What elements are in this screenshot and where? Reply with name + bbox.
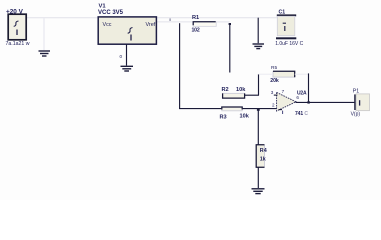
svg-text:R2: R2 (222, 87, 229, 93)
resistor R4 body (256, 145, 264, 168)
ground G3 (253, 44, 265, 49)
ground G1 (39, 51, 51, 56)
probe P1 terminal bar (354, 94, 356, 110)
svg-text:R5: R5 (271, 65, 277, 71)
source BT1 body (8, 14, 26, 40)
wire vertical R1 right net (229, 23, 231, 72)
svg-text:20k: 20k (270, 78, 279, 84)
svg-text:741 C: 741 C (295, 111, 308, 117)
svg-text:V1: V1 (99, 4, 107, 10)
junction tick on top net (169, 18, 170, 21)
ground G2 (121, 66, 134, 71)
svg-text:0: 0 (120, 54, 123, 59)
resistor R3 body (222, 107, 242, 111)
svg-text:R3: R3 (220, 114, 227, 120)
svg-text:7a.1a21 w: 7a.1a21 w (6, 41, 30, 47)
ground G4 (252, 189, 265, 194)
svg-text:C1: C1 (279, 9, 286, 15)
svg-text:V(p): V(p) (351, 111, 361, 117)
svg-text:P1: P1 (353, 88, 359, 94)
wire op-amp output (296, 101, 355, 103)
wire feedback stub left (259, 73, 274, 75)
probe P1 body (356, 94, 369, 111)
svg-text:VCC 3V5: VCC 3V5 (98, 10, 124, 16)
wire junction to R4 (257, 109, 259, 145)
wire faint V1 box right pin to R1 (157, 21, 194, 23)
block V1 inner source glyph (128, 28, 133, 34)
wire V1 bottom pin (126, 44, 128, 65)
svg-text:Vref: Vref (146, 22, 156, 28)
capacitor C1 body (277, 16, 295, 35)
wire R2 right lead (245, 94, 259, 96)
probe P1 inner mark (359, 100, 361, 105)
capacitor C1 bottom plate (276, 37, 296, 39)
block V1 body (98, 17, 156, 44)
svg-text:+20 V: +20 V (6, 9, 24, 16)
wire feedback left vertical (258, 74, 260, 95)
svg-text:102: 102 (192, 28, 200, 34)
wire faint horizontal top net (27, 17, 282, 19)
resistor R2 body (223, 93, 245, 98)
wire vertical from R1 corner down (179, 23, 181, 109)
svg-text:3: 3 (271, 90, 274, 95)
source BT1 inner squiggle (14, 21, 19, 26)
wire to ground G3 (257, 18, 259, 44)
svg-text:1k: 1k (260, 157, 266, 163)
wire feedback right vertical (308, 73, 310, 102)
svg-text:R4: R4 (260, 148, 267, 154)
wire faint vertical to ground G1 (43, 18, 45, 50)
resistor R5 body (273, 71, 295, 77)
wire faint R1 right lead (216, 21, 230, 23)
svg-text:7: 7 (282, 89, 285, 94)
svg-text:10k: 10k (236, 87, 246, 93)
wire R4 bottom to ground (257, 167, 259, 188)
op-amp minus sign (279, 109, 282, 111)
op-amp plus input stub (274, 94, 278, 96)
svg-text:Vcc: Vcc (103, 22, 112, 28)
svg-text:2: 2 (272, 103, 275, 108)
svg-text:1.0uF 16V C: 1.0uF 16V C (275, 41, 303, 47)
op-amp U2A triangle (277, 92, 296, 111)
svg-text:U2A: U2A (297, 90, 307, 96)
wire feedback stub right (295, 73, 309, 75)
resistor R1 body (193, 22, 216, 27)
svg-text:10k: 10k (240, 113, 250, 119)
capacitor C1 top plate (277, 14, 296, 16)
svg-text:R1: R1 (192, 15, 199, 21)
capacitor C1 inner marks (283, 22, 286, 24)
source BT1 inner tick (16, 30, 18, 36)
op-amp V- pin stub (282, 111, 284, 114)
wire horizontal to op-amp inverting input (179, 108, 277, 110)
